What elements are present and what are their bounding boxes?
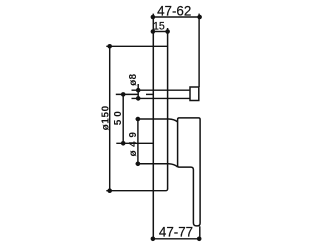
dimension line 15 with end dots	[153, 31, 168, 33]
50 dim bottom extension line to wall	[116, 142, 153, 144]
dimension line 47-77 with end dots	[153, 238, 199, 240]
svg-text:ø150: ø150	[100, 105, 111, 130]
dimension line ø150 (vertical) with end dots	[109, 46, 111, 190]
pipe centerline stubs at y=94.4	[116, 93, 138, 95]
plate bottom edge + ø150 bottom extension line (rounded right corner)	[106, 189, 167, 191]
shower pipe bottom edge	[132, 97, 191, 99]
svg-text:50: 50	[113, 108, 124, 125]
valve body top edge curving into handle	[136, 119, 178, 122]
extension line from handle bottom to 47-77 dim	[199, 226, 201, 240]
svg-text:47-77: 47-77	[159, 224, 193, 239]
pipe outlet block	[190, 87, 199, 101]
escutcheon plate right edge (also extension for 15 dim)	[167, 28, 169, 190]
dimension line ø49 (vertical) with end dots	[137, 119, 139, 164]
valve body bottom edge curving into handle	[136, 164, 178, 167]
plate top edge + ø150 top extension line	[106, 45, 167, 47]
shower pipe top edge	[132, 89, 191, 91]
dimension line 50 (vertical) with end dots	[122, 94, 124, 143]
dimension line 47-62 with end dots	[153, 16, 200, 18]
svg-text:15: 15	[153, 20, 165, 32]
extension line from 47-62 right end down to outlet block	[198, 14, 200, 87]
svg-text:ø8: ø8	[128, 74, 139, 86]
svg-text:47-62: 47-62	[157, 3, 191, 18]
dimension line ø8 (vertical) with end dots	[137, 84, 139, 100]
wall / plate left edge (also extension line for top and bottom dims)	[152, 14, 154, 241]
handle outline (lever mixer handle)	[178, 118, 201, 226]
svg-text:ø49: ø49	[128, 128, 139, 156]
